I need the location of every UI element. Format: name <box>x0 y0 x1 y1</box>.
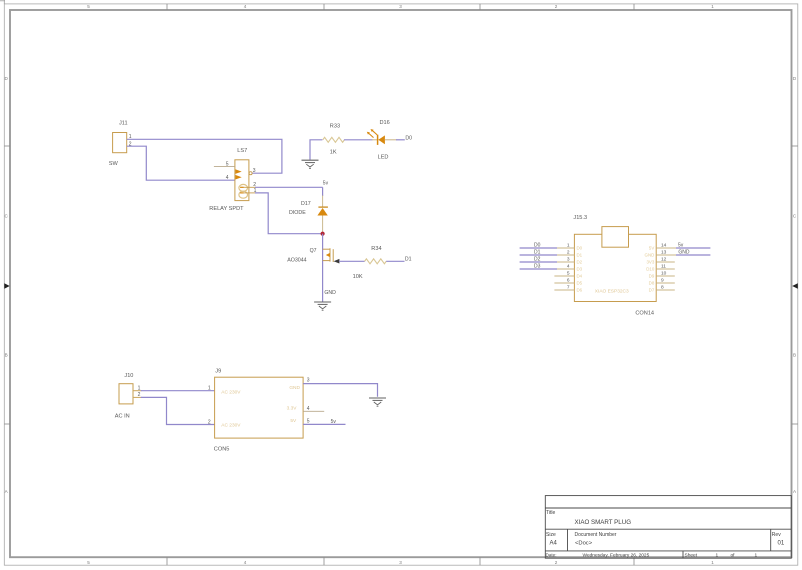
ground GND label below Q7 <box>324 290 336 296</box>
svg-text:10K: 10K <box>353 274 363 280</box>
svg-text:A: A <box>5 489 9 494</box>
svg-text:D0: D0 <box>534 242 541 248</box>
svg-text:D1: D1 <box>405 256 412 262</box>
net label 5v at J9 <box>331 419 337 425</box>
svg-text:3V3: 3V3 <box>646 260 654 265</box>
svg-text:C: C <box>793 214 797 219</box>
svg-text:J11: J11 <box>119 120 128 126</box>
svg-text:AO3044: AO3044 <box>287 258 306 264</box>
svg-text:XIAO SMART PLUG: XIAO SMART PLUG <box>575 519 632 526</box>
title block text <box>546 510 785 559</box>
svg-text:5: 5 <box>307 418 310 424</box>
wire 5v node down to D17 <box>322 187 324 207</box>
svg-text:D6: D6 <box>577 288 583 293</box>
svg-text:14: 14 <box>661 242 667 248</box>
wire R33 to D16 <box>344 139 378 141</box>
svg-text:<Doc>: <Doc> <box>575 541 593 547</box>
ground symbol at J9 <box>369 398 386 406</box>
svg-text:D0: D0 <box>405 135 412 141</box>
frame zone ticks bottom <box>167 557 634 565</box>
svg-text:2: 2 <box>567 249 570 255</box>
junction node dot <box>321 232 325 236</box>
svg-text:5: 5 <box>567 270 570 276</box>
svg-text:XIAO ESP32C3: XIAO ESP32C3 <box>595 289 629 295</box>
svg-text:5v: 5v <box>678 242 684 248</box>
svg-text:3: 3 <box>567 256 570 262</box>
relay pin3 circle <box>249 172 252 175</box>
svg-text:3: 3 <box>307 377 310 383</box>
svg-text:Q7: Q7 <box>310 248 317 254</box>
ground symbol at R33 <box>302 160 319 168</box>
svg-text:4: 4 <box>244 560 247 565</box>
svg-text:7: 7 <box>567 284 570 290</box>
svg-text:D5: D5 <box>577 281 583 286</box>
wire module pin14 to 5v <box>676 247 710 249</box>
svg-text:CON14: CON14 <box>635 311 654 317</box>
svg-text:AC 230V: AC 230V <box>221 422 241 428</box>
svg-text:DIODE: DIODE <box>289 210 306 216</box>
module J9 power supply <box>208 369 310 453</box>
svg-text:2: 2 <box>208 420 211 426</box>
svg-text:LS7: LS7 <box>237 148 247 154</box>
wire J11 pin2 to relay pin4 <box>127 146 235 180</box>
svg-text:1K: 1K <box>330 150 337 156</box>
net label D1 <box>405 256 412 262</box>
svg-text:1: 1 <box>711 560 714 565</box>
LED D16 <box>367 120 390 160</box>
svg-text:3: 3 <box>399 560 402 565</box>
wire relay pin1 to junction <box>255 193 323 234</box>
wire net D3 to module pin4 <box>520 268 557 270</box>
connector J10 <box>115 373 141 419</box>
svg-text:AC 230V: AC 230V <box>221 390 241 396</box>
svg-text:Date:: Date: <box>546 553 557 558</box>
wire J9 pin3 to ground <box>303 384 377 397</box>
svg-text:10: 10 <box>661 270 667 276</box>
net label D3 at module <box>534 263 541 269</box>
svg-text:D2: D2 <box>534 256 541 262</box>
svg-text:RELAY SPDT: RELAY SPDT <box>209 206 244 212</box>
svg-text:8: 8 <box>661 284 664 290</box>
svg-text:D1: D1 <box>577 253 583 258</box>
svg-text:Title: Title <box>546 510 555 516</box>
svg-text:D0: D0 <box>577 246 583 251</box>
svg-text:D7: D7 <box>649 288 655 293</box>
svg-text:D8: D8 <box>649 281 655 286</box>
wire D17 to junction <box>322 216 324 234</box>
relay pin5 stub <box>214 165 235 167</box>
svg-text:5: 5 <box>87 4 90 9</box>
svg-text:D2: D2 <box>577 260 583 265</box>
svg-text:GND: GND <box>645 253 655 258</box>
title block <box>545 496 791 559</box>
svg-text:D3: D3 <box>534 263 541 269</box>
svg-text:D: D <box>793 76 797 81</box>
svg-text:3.3V: 3.3V <box>287 406 298 412</box>
svg-text:1: 1 <box>711 4 714 9</box>
svg-text:D3: D3 <box>577 267 583 272</box>
svg-text:D17: D17 <box>301 201 311 207</box>
svg-text:SW: SW <box>109 161 119 167</box>
wire D16 to D0 label <box>385 139 405 141</box>
module left pin stubs 1-7 <box>554 248 574 290</box>
svg-text:R34: R34 <box>371 246 381 252</box>
frame center mark right <box>792 283 798 288</box>
svg-text:CON5: CON5 <box>214 447 230 453</box>
wire J10 pin1 to J9 pin1 <box>141 390 215 392</box>
net label D2 at module <box>534 256 541 262</box>
svg-text:5V: 5V <box>649 246 654 251</box>
svg-text:Rev: Rev <box>772 532 781 538</box>
svg-text:1: 1 <box>567 242 570 248</box>
svg-text:D10: D10 <box>646 267 655 272</box>
svg-text:Wednesday, February 26, 2025: Wednesday, February 26, 2025 <box>583 553 650 559</box>
svg-text:3: 3 <box>399 4 402 9</box>
svg-text:D4: D4 <box>577 274 583 279</box>
wire J9 pin5 to 5v <box>303 423 345 425</box>
svg-text:Sheet: Sheet <box>685 553 698 559</box>
svg-text:11: 11 <box>661 263 666 269</box>
svg-text:D1: D1 <box>534 249 541 255</box>
frame zone ticks left <box>4 146 10 424</box>
svg-text:2: 2 <box>555 560 558 565</box>
wire module pin13 to GND <box>676 254 710 256</box>
svg-text:1: 1 <box>208 386 211 392</box>
svg-text:Size: Size <box>546 532 556 538</box>
svg-text:3: 3 <box>253 168 256 174</box>
module right pin numbers <box>661 242 667 290</box>
frame center mark left <box>4 283 9 288</box>
svg-text:5v: 5v <box>331 419 337 425</box>
net label D1 at module <box>534 249 541 255</box>
svg-text:J15.3: J15.3 <box>573 215 587 221</box>
module right pin stubs 14-8 <box>656 248 677 290</box>
svg-text:LED: LED <box>378 154 389 160</box>
svg-text:1: 1 <box>716 553 719 559</box>
svg-text:5v: 5v <box>323 180 329 186</box>
svg-text:C: C <box>5 214 9 219</box>
frame row letters right <box>793 76 797 494</box>
svg-text:12: 12 <box>661 256 667 262</box>
module right pin names <box>645 246 655 293</box>
svg-text:9: 9 <box>661 277 664 283</box>
node 5v <box>323 180 329 186</box>
frame zone ticks top <box>167 4 634 10</box>
wire R33 left to ground <box>310 140 322 160</box>
frame column numbers bottom <box>87 560 714 565</box>
wire net D0 to module pin1 <box>520 247 557 249</box>
wire Q7 gate to R34 <box>339 260 365 262</box>
frame column numbers top <box>87 4 714 9</box>
svg-text:R33: R33 <box>330 123 340 129</box>
relay pin2 stub <box>249 186 256 188</box>
svg-text:of: of <box>731 553 736 559</box>
svg-text:13: 13 <box>661 249 667 255</box>
svg-text:J9: J9 <box>215 369 221 375</box>
resistor R33 <box>323 123 345 155</box>
net label 5v at module <box>678 242 684 248</box>
frame row letters left <box>5 76 9 494</box>
svg-text:AC IN: AC IN <box>115 414 130 420</box>
svg-text:B: B <box>5 353 8 358</box>
J10 pin2 stub <box>133 396 142 398</box>
connector J11 <box>109 120 132 167</box>
resistor R34 <box>353 246 387 280</box>
svg-text:A: A <box>793 489 797 494</box>
wire net D2 to module pin3 <box>520 261 557 263</box>
svg-text:4: 4 <box>244 4 247 9</box>
svg-text:A4: A4 <box>550 540 558 546</box>
relay pin1 stub <box>249 192 256 194</box>
svg-text:6: 6 <box>567 277 570 283</box>
svg-text:J10: J10 <box>124 373 133 379</box>
svg-text:GND: GND <box>678 249 690 255</box>
svg-text:5: 5 <box>87 560 90 565</box>
svg-text:D: D <box>5 76 9 81</box>
ground symbol below Q7 <box>314 302 331 310</box>
svg-text:D9: D9 <box>649 274 655 279</box>
svg-text:D16: D16 <box>380 120 390 126</box>
relay LS7 <box>209 148 256 212</box>
net label GND at module <box>678 249 690 255</box>
wire R34 to D1 label <box>386 260 404 262</box>
svg-text:GND: GND <box>324 290 336 296</box>
svg-text:5V: 5V <box>290 418 297 424</box>
svg-text:4: 4 <box>226 175 229 181</box>
transistor Q7 <box>287 248 339 264</box>
module left pin numbers <box>567 242 570 290</box>
module J15.3 XIAO ESP32C3 <box>573 215 656 317</box>
svg-text:01: 01 <box>778 540 785 546</box>
wire junction to GND through Q7 <box>322 234 324 302</box>
wire J10 pin2 to J9 pin2 <box>141 397 215 424</box>
svg-text:4: 4 <box>567 263 570 269</box>
net label D0 at module <box>534 242 541 248</box>
wire J11 pin1 to relay pin3 <box>127 139 282 173</box>
svg-text:B: B <box>793 353 796 358</box>
module left pin names <box>577 246 583 293</box>
frame zone ticks right <box>792 146 798 424</box>
frame corner mark top-left <box>0 0 5 4</box>
svg-text:GND: GND <box>289 385 300 391</box>
J9 pin4 stub <box>303 410 324 412</box>
net label D0 <box>405 135 412 141</box>
diode D17 <box>289 201 328 216</box>
J10 pin1 stub <box>133 390 142 392</box>
svg-text:Document Number: Document Number <box>575 532 617 538</box>
svg-text:1: 1 <box>755 553 758 559</box>
wire net D1 to module pin2 <box>520 254 557 256</box>
wire relay pin2 to 5v node <box>255 186 323 188</box>
svg-text:2: 2 <box>555 4 558 9</box>
